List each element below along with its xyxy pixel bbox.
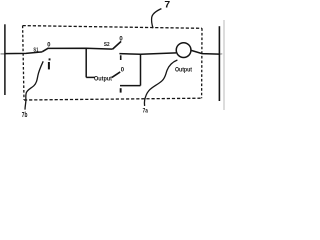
svg-text:0: 0 xyxy=(121,66,125,73)
svg-text:0: 0 xyxy=(119,36,123,43)
svg-text:S1: S1 xyxy=(33,47,39,53)
svg-text:Output: Output xyxy=(94,75,113,82)
svg-text:Output: Output xyxy=(175,66,193,73)
svg-text:7b: 7b xyxy=(22,112,28,119)
svg-text:0: 0 xyxy=(47,42,50,49)
svg-text:7: 7 xyxy=(164,0,170,10)
svg-text:7a: 7a xyxy=(143,107,148,114)
svg-text:S2: S2 xyxy=(104,42,110,48)
